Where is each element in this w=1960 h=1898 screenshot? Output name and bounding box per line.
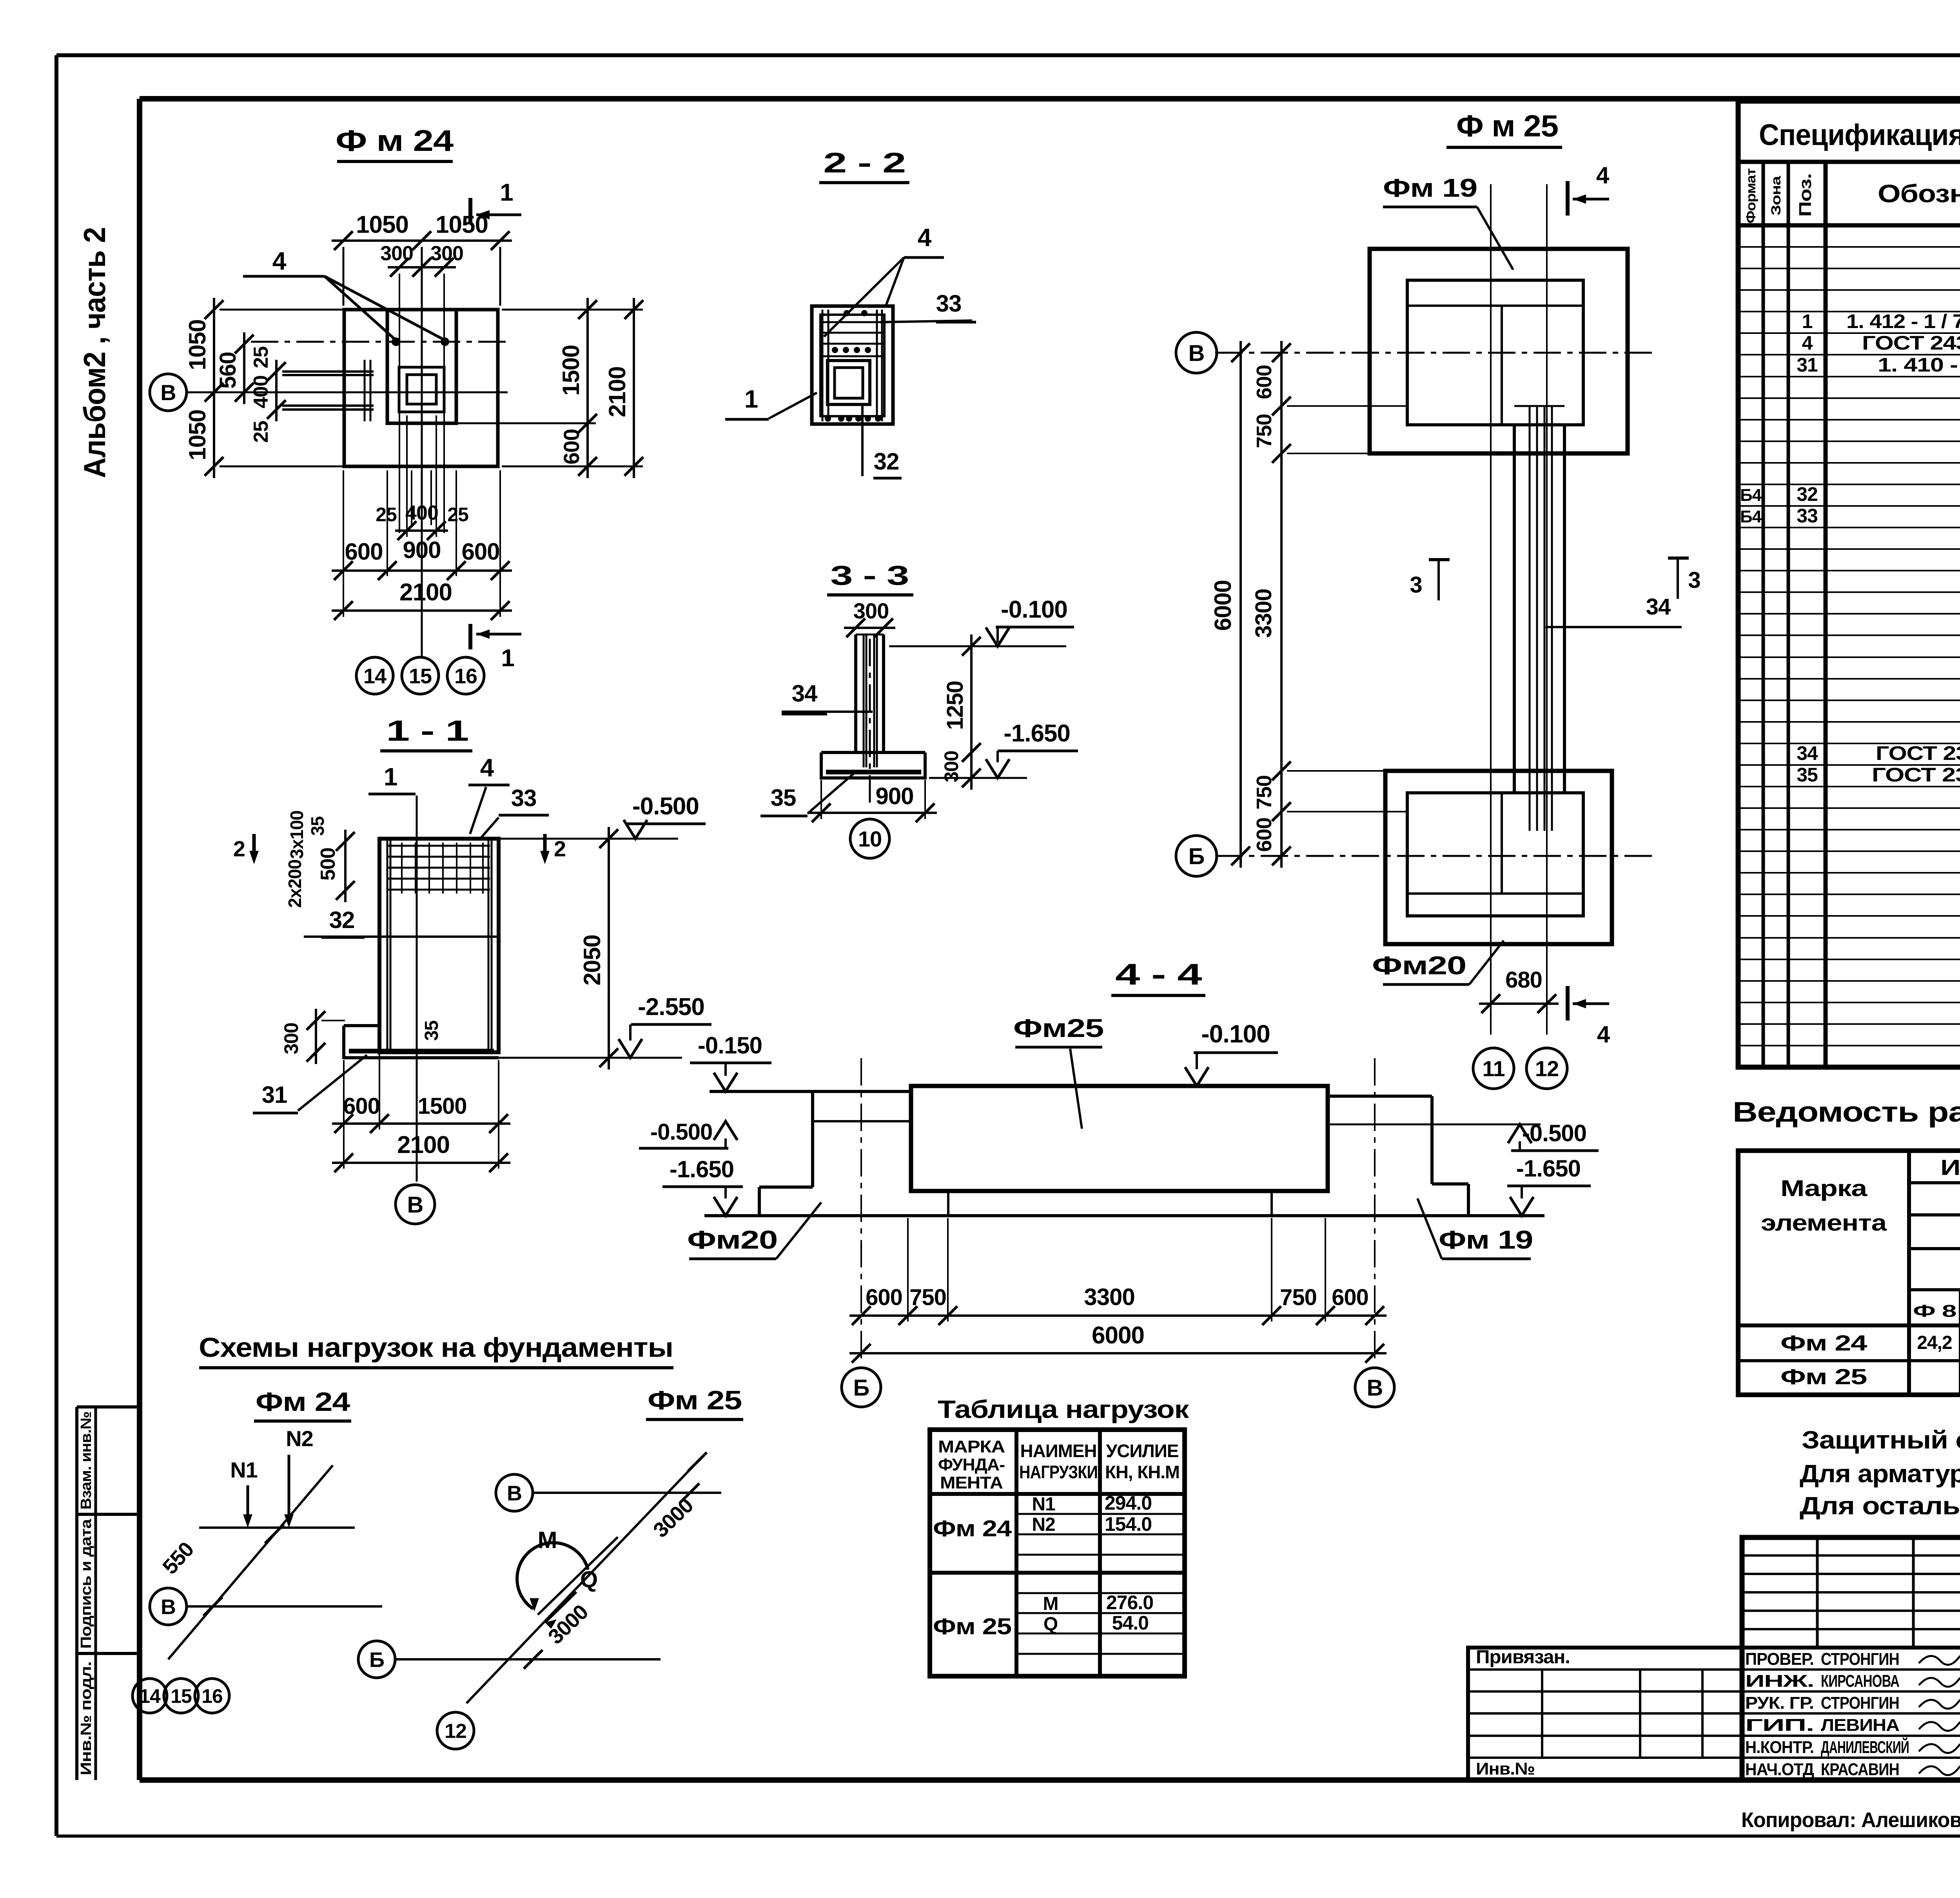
svg-text:Н.КОНТР.: Н.КОНТР. — [1745, 1738, 1814, 1757]
svg-text:ДАНИЛЕВСКИЙ: ДАНИЛЕВСКИЙ — [1821, 1737, 1909, 1757]
svg-text:600: 600 — [1252, 365, 1276, 399]
1-1 vertical rebar right — [488, 839, 490, 1050]
svg-text:ГОСТ 23279 - 85: ГОСТ 23279 - 85 — [1876, 742, 1960, 764]
svg-text:400: 400 — [405, 502, 438, 524]
svg-text:Ф м 25: Ф м 25 — [1456, 109, 1558, 143]
svg-text:25: 25 — [376, 504, 397, 526]
svg-text:31: 31 — [262, 1082, 287, 1108]
svg-text:14: 14 — [363, 664, 387, 688]
svg-text:600: 600 — [461, 538, 499, 565]
svg-text:МЕНТА: МЕНТА — [940, 1473, 1003, 1492]
Fm20 block outer rect — [1385, 771, 1612, 944]
svg-text:24,2: 24,2 — [1917, 1332, 1952, 1353]
axis circle V left — [150, 374, 187, 411]
axis circle B bottom — [842, 1368, 881, 1407]
svg-text:Марка: Марка — [1780, 1176, 1867, 1201]
svg-text:2: 2 — [233, 836, 245, 861]
1-1 mesh horizontal lines — [388, 845, 490, 847]
svg-text:3300: 3300 — [1251, 589, 1276, 638]
svg-text:Копировал: Алешикова: Копировал: Алешикова — [1741, 1808, 1960, 1832]
2-2 mesh horizontal lines — [820, 321, 884, 323]
svg-text:Таблица нагрузок: Таблица нагрузок — [938, 1395, 1189, 1423]
svg-text:В: В — [1189, 341, 1205, 366]
svg-text:Q: Q — [580, 1567, 597, 1592]
svg-text:-0.100: -0.100 — [1201, 1020, 1270, 1048]
svg-text:1: 1 — [501, 645, 514, 672]
title block change grid verticals — [1816, 1537, 1819, 1648]
Fm24 mesh bars sticking out left — [282, 370, 374, 373]
svg-text:1050: 1050 — [356, 211, 408, 238]
scheme Fm25 main diagonal — [466, 1462, 697, 1703]
svg-text:32: 32 — [1797, 483, 1818, 505]
steel table sub columns — [1959, 1290, 1960, 1325]
axis circles 14 15 16 — [356, 657, 393, 694]
svg-text:6000: 6000 — [1092, 1322, 1144, 1349]
scheme Fm25 moment M arc — [517, 1543, 588, 1609]
1-1 footing bottom rebar — [349, 1049, 494, 1053]
Fm24 pedestal outline — [387, 310, 456, 423]
svg-text:1250: 1250 — [942, 681, 968, 730]
section mark 4 top — [1566, 181, 1570, 216]
svg-text:2 - 2: 2 - 2 — [823, 147, 906, 179]
svg-text:КИРСАНОВА: КИРСАНОВА — [1821, 1671, 1899, 1691]
svg-text:3: 3 — [1410, 572, 1422, 598]
svg-text:4: 4 — [1597, 1021, 1610, 1048]
svg-text:Поз.: Поз. — [1796, 174, 1815, 217]
4-4 bottom dim 6000 — [849, 1352, 1387, 1354]
title block outer — [1742, 1537, 1960, 1780]
svg-text:6000: 6000 — [1210, 580, 1236, 631]
svg-text:НАГРУЗКИ: НАГРУЗКИ — [1019, 1462, 1098, 1482]
svg-text:3: 3 — [1688, 567, 1700, 593]
Fm25 left dim chain 600 750 3300 750 600 — [1280, 341, 1283, 868]
svg-text:Б: Б — [853, 1375, 869, 1401]
svg-text:680: 680 — [1505, 967, 1542, 993]
Fm20 block pedestal rect — [1407, 793, 1583, 916]
svg-text:300: 300 — [853, 598, 889, 623]
svg-text:4: 4 — [480, 754, 494, 782]
2-2 glass outer — [828, 361, 870, 404]
svg-text:600: 600 — [1252, 818, 1276, 852]
svg-text:35: 35 — [421, 1021, 442, 1041]
svg-text:750: 750 — [1280, 1285, 1317, 1310]
4-4 axis V vertical — [1374, 1058, 1376, 1364]
svg-text:-0.150: -0.150 — [698, 1032, 762, 1059]
svg-text:4 - 4: 4 - 4 — [1115, 958, 1202, 991]
svg-text:33: 33 — [1797, 505, 1818, 527]
svg-text:Изделия арматурные: Изделия арматурные — [1940, 1155, 1960, 1180]
2-2 rebar dots middle row — [832, 347, 838, 353]
svg-text:Ф м 24: Ф м 24 — [336, 124, 454, 158]
svg-text:Фм 25: Фм 25 — [1780, 1364, 1867, 1389]
svg-text:10: 10 — [858, 827, 882, 851]
svg-text:32: 32 — [329, 907, 355, 933]
svg-text:154.0: 154.0 — [1105, 1513, 1152, 1535]
svg-text:900: 900 — [875, 783, 913, 809]
svg-text:54.0: 54.0 — [1112, 1612, 1149, 1634]
svg-text:4: 4 — [1802, 332, 1813, 354]
Fm25 left dim 6000 — [1240, 341, 1242, 868]
svg-text:ПРОВЕР.: ПРОВЕР. — [1745, 1650, 1814, 1669]
title block signature rows — [1742, 1668, 1960, 1671]
2-2 rebar dots top — [844, 310, 850, 316]
svg-text:1. 410 - 3. 1 - 12: 1. 410 - 3. 1 - 12 — [1878, 354, 1960, 376]
beam rebar lines 34 — [1529, 406, 1531, 831]
svg-text:1500: 1500 — [417, 1093, 466, 1119]
svg-text:Формат: Формат — [1744, 169, 1759, 223]
beam strip left edge — [1513, 425, 1516, 793]
svg-text:Фм 24: Фм 24 — [1780, 1331, 1867, 1355]
svg-text:ГОСТ 24379. 1 - 80: ГОСТ 24379. 1 - 80 — [1862, 332, 1960, 354]
beam strip top line — [1514, 405, 1564, 407]
svg-text:750: 750 — [1252, 775, 1276, 809]
4-4 left Fm20 profile — [811, 1091, 814, 1187]
axis circles 11 12 — [1473, 1048, 1514, 1089]
svg-text:31: 31 — [1797, 354, 1818, 376]
svg-text:КРАСАВИН: КРАСАВИН — [1821, 1760, 1899, 1779]
1-1 vertical rebar left — [387, 839, 388, 1050]
axis circle V bottom of 1-1 — [396, 1185, 435, 1224]
svg-text:M: M — [538, 1527, 557, 1553]
spec table header row line — [1738, 223, 1960, 228]
3-3 column outline — [854, 634, 857, 752]
svg-text:35: 35 — [1797, 764, 1818, 786]
svg-text:-0.100: -0.100 — [1001, 596, 1067, 623]
Fm24 bottom dims 25 400 25 — [395, 529, 448, 532]
svg-text:3x100: 3x100 — [287, 811, 307, 859]
outer paper border — [56, 53, 1960, 57]
svg-text:600: 600 — [559, 429, 584, 464]
svg-text:Инв.№ подл.: Инв.№ подл. — [78, 1662, 94, 1775]
scheme Fm25 parallel segment — [538, 1537, 618, 1615]
svg-text:Фм 25: Фм 25 — [933, 1614, 1011, 1639]
svg-text:3300: 3300 — [1084, 1284, 1134, 1310]
leader label 4 to bolts — [243, 275, 325, 278]
svg-text:Ведомость расхода стали на: Ведомость расхода стали на один элемент,… — [1733, 1097, 1960, 1128]
svg-text:ФУНДА-: ФУНДА- — [938, 1455, 1005, 1474]
svg-text:Б4: Б4 — [1740, 486, 1762, 505]
scheme Fm25 axis V line and circle — [496, 1474, 533, 1511]
4-4 right thin ledge line — [1330, 1124, 1541, 1126]
axis B horizontal dashdot — [1215, 855, 1658, 857]
2-2 leader label 32 — [861, 404, 864, 476]
svg-text:500: 500 — [317, 848, 339, 881]
svg-text:Ф 8: Ф 8 — [1913, 1302, 1956, 1321]
spec table column lines — [1762, 162, 1765, 1067]
3-3 center dash line — [869, 639, 871, 807]
svg-text:Q: Q — [1044, 1614, 1058, 1635]
1-1 section marks 2 — [252, 834, 256, 859]
4-4 under-slab verticals — [947, 1191, 949, 1216]
svg-text:Фм 24: Фм 24 — [256, 1387, 350, 1417]
svg-text:560: 560 — [215, 352, 241, 389]
svg-text:1: 1 — [1802, 310, 1813, 332]
svg-text:Альбом2 , часть 2: Альбом2 , часть 2 — [77, 227, 112, 478]
4-4 axis B vertical — [860, 1058, 862, 1364]
svg-text:N1: N1 — [1032, 1494, 1055, 1515]
svg-text:2050: 2050 — [579, 935, 605, 985]
title block change grid rows — [1742, 1554, 1960, 1557]
scheme Fm24 diagonal axis — [168, 1465, 333, 1659]
svg-text:N2: N2 — [1032, 1514, 1055, 1535]
svg-text:Фм20: Фм20 — [1372, 951, 1466, 980]
svg-text:32: 32 — [874, 448, 899, 475]
2-2 rebar dots bottom row — [825, 415, 831, 422]
svg-text:В: В — [1367, 1375, 1383, 1401]
1-1 left dim chain mesh — [344, 830, 347, 902]
4-4 bottom ground line — [704, 1214, 1544, 1217]
Fm24 anchor glass outer — [399, 367, 444, 412]
Fm24 left dims 25 400 25 — [275, 360, 278, 421]
svg-text:1: 1 — [500, 179, 513, 206]
spec table body row lines — [1738, 246, 1960, 248]
axis V horizontal dashdot — [1215, 352, 1658, 354]
Fm24 top dimension 300+300 — [388, 266, 456, 268]
svg-text:16: 16 — [201, 1685, 223, 1707]
svg-text:1 - 1: 1 - 1 — [386, 714, 468, 747]
scheme Fm24 upper line — [199, 1526, 355, 1529]
inner drawing frame — [140, 96, 1960, 102]
svg-text:25: 25 — [447, 504, 468, 526]
4-4 right Fm19 profile — [1328, 1095, 1432, 1098]
svg-text:400: 400 — [250, 375, 272, 408]
svg-text:1500: 1500 — [558, 345, 584, 395]
svg-text:Инв.№: Инв.№ — [1476, 1759, 1535, 1778]
svg-text:Обозначение: Обозначение — [1878, 179, 1960, 208]
2-2 glass inner — [835, 368, 863, 398]
svg-text:ИНЖ.: ИНЖ. — [1745, 1671, 1814, 1691]
svg-text:МАРКА: МАРКА — [938, 1437, 1005, 1456]
svg-text:Фм20: Фм20 — [687, 1225, 777, 1254]
svg-text:НАЧ.ОТД: НАЧ.ОТД — [1745, 1760, 1814, 1779]
svg-text:1: 1 — [744, 385, 758, 413]
1-1 left dim 300 — [315, 1009, 317, 1064]
2-2 pedestal outer outline — [812, 306, 893, 424]
steel table horizontal lines — [1909, 1181, 1960, 1184]
Fm19 block pedestal rect — [1407, 280, 1583, 425]
axis 11 vertical line — [1490, 184, 1492, 1035]
svg-text:4: 4 — [918, 223, 932, 252]
2-2 pedestal inner line — [820, 315, 884, 416]
axis circle V bottom — [1355, 1368, 1394, 1407]
privyazan table — [1468, 1648, 1742, 1780]
1-1 footing outline — [344, 1024, 379, 1027]
Fm24 footing outline 2100x2100 — [344, 310, 498, 466]
3-3 column rebar lines — [863, 634, 865, 767]
svg-text:СТРОНГИН: СТРОНГИН — [1821, 1650, 1899, 1669]
axis 12 vertical line — [1546, 184, 1548, 1035]
svg-text:300: 300 — [380, 242, 413, 265]
svg-text:1050: 1050 — [184, 319, 211, 370]
svg-text:Б: Б — [1189, 844, 1205, 869]
svg-text:В: В — [160, 380, 176, 405]
1-1 right dim 2050 — [608, 827, 610, 1070]
Fm24 left dim 560 — [243, 332, 245, 404]
4-4 bottom dim chain 600 750 3300 750 600 — [849, 1314, 1387, 1317]
svg-text:Фм 25: Фм 25 — [648, 1385, 742, 1415]
1-1 leader 32 — [304, 935, 497, 938]
2-2 vertical rebar pair right — [876, 310, 878, 421]
svg-text:Защитный слой бетона:: Защитный слой бетона: — [1802, 1426, 1960, 1454]
section mark 1 bottom — [468, 624, 472, 649]
svg-text:600: 600 — [866, 1285, 902, 1310]
svg-text:300: 300 — [430, 242, 463, 265]
svg-text:294.0: 294.0 — [1105, 1492, 1152, 1514]
3-3 dim 900 — [809, 812, 937, 814]
svg-text:33: 33 — [511, 785, 537, 811]
svg-text:N2: N2 — [286, 1426, 313, 1451]
3-3 footing bottom rebar — [826, 770, 921, 774]
svg-text:750: 750 — [1252, 414, 1276, 448]
svg-text:элемента: элемента — [1761, 1210, 1887, 1236]
1-1 bottom dims 600 1500 — [332, 1122, 510, 1125]
svg-text:Фм 19: Фм 19 — [1439, 1225, 1533, 1254]
1-1 bottom dim 2100 — [332, 1162, 510, 1164]
svg-text:15: 15 — [171, 1685, 192, 1707]
svg-text:34: 34 — [1797, 742, 1818, 764]
svg-text:34: 34 — [1646, 594, 1671, 620]
3-3 footing outline — [821, 751, 925, 754]
svg-text:-2.550: -2.550 — [638, 993, 704, 1021]
svg-text:Фм 24: Фм 24 — [933, 1516, 1012, 1541]
svg-text:276.0: 276.0 — [1106, 1592, 1153, 1613]
Fm19 pedestal center divider — [1501, 306, 1503, 425]
svg-text:11: 11 — [1482, 1056, 1504, 1081]
svg-text:2100: 2100 — [399, 579, 452, 606]
scheme Fm24 axis V line and circle — [187, 1605, 382, 1608]
Fm19 block outer rect — [1370, 249, 1628, 453]
svg-text:33: 33 — [936, 290, 962, 317]
svg-text:16: 16 — [454, 664, 477, 688]
svg-text:Спецификация монолитных фунд: Спецификация монолитных фундаментов Фм24… — [1759, 118, 1960, 152]
4-4 slab outline — [911, 1086, 1328, 1191]
svg-text:Б4: Б4 — [1740, 507, 1762, 526]
svg-text:35: 35 — [307, 816, 328, 836]
svg-text:ГИП.: ГИП. — [1745, 1716, 1814, 1735]
svg-text:-1.650: -1.650 — [1516, 1155, 1581, 1182]
beam strip right edge — [1563, 425, 1566, 793]
svg-text:4: 4 — [1596, 162, 1610, 189]
svg-text:Фм25: Фм25 — [1013, 1013, 1103, 1042]
svg-text:4: 4 — [272, 247, 287, 275]
svg-text:2100: 2100 — [604, 366, 630, 417]
svg-text:M: M — [1043, 1593, 1058, 1614]
svg-text:35: 35 — [771, 785, 796, 811]
Fm24 vertical axis line 15 — [421, 290, 423, 658]
Fm24 right dim 2100 — [633, 298, 635, 478]
axis circle V — [1176, 332, 1217, 373]
axis circle 10 — [850, 819, 889, 858]
svg-text:900: 900 — [403, 537, 441, 563]
svg-text:3 - 3: 3 - 3 — [830, 560, 909, 591]
Fm24 anchor glass inner — [407, 375, 436, 404]
scheme Fm25 axis B line and circle — [358, 1641, 395, 1678]
svg-text:КН, КН.М: КН, КН.М — [1105, 1462, 1180, 1482]
steel table outer — [1738, 1151, 1960, 1395]
Fm20 pedestal center divider — [1501, 793, 1503, 894]
svg-text:Для остальной - 25 мм.: Для остальной - 25 мм. — [1800, 1492, 1960, 1520]
svg-text:НАИМЕН: НАИМЕН — [1020, 1441, 1097, 1461]
svg-text:1: 1 — [384, 763, 397, 791]
svg-text:2x200: 2x200 — [285, 860, 305, 908]
Fm20 pedestal inner bottom line — [1407, 892, 1583, 895]
svg-text:В: В — [161, 1595, 176, 1619]
svg-text:Для арматуры подошвы фундамент: Для арматуры подошвы фундамента -35 мм, — [1800, 1459, 1960, 1488]
scheme Fm25 axis circle 12 — [437, 1712, 474, 1749]
svg-text:300: 300 — [280, 1023, 302, 1054]
svg-text:25: 25 — [250, 346, 272, 368]
svg-text:В: В — [407, 1192, 423, 1218]
Fm24 axis V dash-dot horizontal — [187, 392, 508, 393]
4-4 left ground line -0.150 — [710, 1090, 911, 1093]
Fm24 bottom dims 600 900 600 — [332, 569, 512, 572]
svg-text:N1: N1 — [230, 1457, 258, 1482]
Fm24 bottom dim 2100 — [332, 609, 512, 612]
svg-text:УСИЛИЕ: УСИЛИЕ — [1106, 1441, 1179, 1461]
1-1 mesh vertical ticks — [401, 843, 403, 894]
svg-text:-1.650: -1.650 — [1004, 720, 1070, 747]
section mark 4 bottom — [1566, 986, 1570, 1021]
svg-text:Б: Б — [369, 1648, 384, 1671]
svg-text:15: 15 — [409, 664, 432, 688]
svg-text:600: 600 — [1332, 1285, 1368, 1310]
1-1 pedestal outline — [379, 839, 499, 1052]
svg-text:600: 600 — [345, 538, 383, 565]
svg-text:СТРОНГИН: СТРОНГИН — [1821, 1693, 1899, 1713]
svg-text:-0.500: -0.500 — [632, 793, 699, 820]
Fm24 top dimension 1050+1050 — [332, 239, 512, 242]
Fm19 pedestal inner top line — [1407, 305, 1583, 307]
svg-text:2: 2 — [554, 836, 566, 861]
svg-text:34: 34 — [792, 680, 818, 707]
left margin column boxes — [75, 1407, 78, 1780]
svg-text:1050: 1050 — [184, 410, 211, 460]
svg-text:В: В — [507, 1481, 522, 1505]
svg-text:Привязан.: Привязан. — [1476, 1647, 1570, 1668]
svg-text:600: 600 — [343, 1093, 380, 1119]
svg-text:-0.500: -0.500 — [650, 1119, 712, 1145]
svg-text:2100: 2100 — [397, 1131, 450, 1158]
title block signature scribbles — [1919, 1653, 1960, 1665]
svg-text:1. 412 - 1 / 77 - В.3 - 020: 1. 412 - 1 / 77 - В.3 - 020 — [1846, 310, 1960, 332]
svg-text:-1.650: -1.650 — [670, 1156, 734, 1182]
3-3 dims 1250 and 300 — [970, 634, 973, 790]
svg-text:ЛЕВИНА: ЛЕВИНА — [1821, 1716, 1899, 1735]
section marks 3 — [1429, 558, 1450, 561]
svg-text:РУК. ГР.: РУК. ГР. — [1745, 1693, 1814, 1713]
svg-text:Взам. инв.№: Взам. инв.№ — [78, 1412, 94, 1510]
Fm24 anchor bolts — [392, 337, 400, 346]
svg-text:Подпись и дата: Подпись и дата — [78, 1519, 94, 1649]
scheme Fm24 axis circles 14 15 16 — [132, 1679, 167, 1713]
svg-text:ГОСТ 23279 - 85: ГОСТ 23279 - 85 — [1872, 764, 1960, 786]
spec table outer — [1738, 101, 1960, 1067]
load table grid — [930, 1430, 1185, 1676]
Fm24 left dim chain 1050/1050 — [213, 298, 215, 478]
svg-text:Зона: Зона — [1769, 175, 1784, 216]
2-2 vertical rebar pair left — [822, 310, 824, 421]
svg-text:12: 12 — [1535, 1056, 1559, 1081]
svg-text:Фм 19: Фм 19 — [1383, 173, 1477, 202]
svg-text:Схемы нагрузок на фундамент: Схемы нагрузок на фундаменты — [199, 1332, 673, 1363]
svg-text:14: 14 — [139, 1685, 161, 1707]
axis circle B — [1176, 836, 1217, 876]
svg-text:12: 12 — [445, 1720, 466, 1743]
section mark 1 top — [468, 198, 472, 223]
Fm24 bolt axis dash-dot line — [251, 341, 508, 343]
steel table verticals main — [1907, 1151, 1911, 1395]
svg-text:750: 750 — [909, 1285, 946, 1310]
